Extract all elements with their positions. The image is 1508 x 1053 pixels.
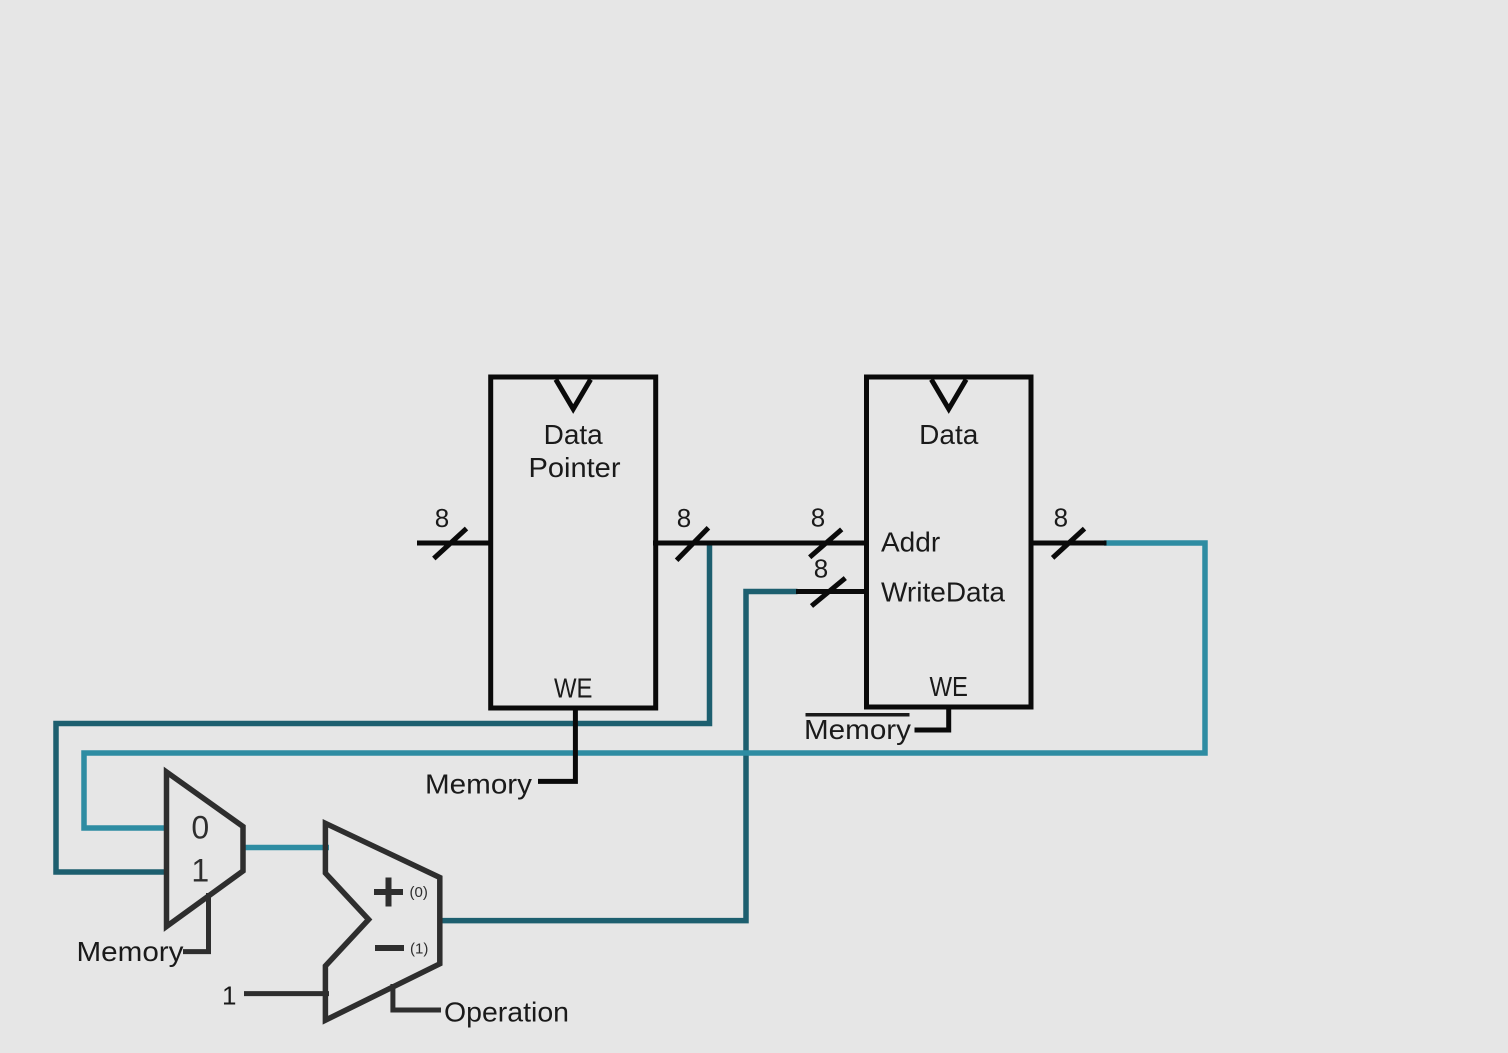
wire: Data output stub	[1029, 541, 1107, 546]
wire dark-teal feedback: DataPointer.Q down, left, down to mux input 1	[56, 546, 710, 873]
bus slash 8 (WriteData input)	[812, 578, 846, 606]
svg-text:Data: Data	[919, 419, 979, 450]
bus slash 8 (Data output)	[1053, 529, 1085, 558]
wire: input bus into Data Pointer	[417, 541, 493, 546]
svg-text:(1): (1)	[410, 940, 428, 957]
mux M1	[167, 772, 244, 927]
svg-text:0: 0	[191, 810, 209, 846]
wire: WE stub of Data down to Memory-bar label	[915, 705, 949, 730]
register U2 Data	[867, 377, 1032, 707]
svg-text:Data: Data	[544, 419, 604, 450]
wire light-teal: mux output to ALU input	[245, 845, 329, 851]
register U1 Data Pointer	[491, 377, 656, 708]
ALU op symbol plus	[374, 878, 403, 907]
ALU A1	[325, 823, 439, 1020]
svg-text:Addr: Addr	[881, 527, 940, 558]
clock input chevron U1	[556, 380, 591, 410]
svg-text:Memory: Memory	[425, 769, 532, 800]
svg-text:8: 8	[677, 503, 691, 533]
wire: constant 1 into ALU	[244, 991, 329, 996]
clock input chevron U2	[931, 380, 966, 410]
svg-text:Memory: Memory	[77, 936, 184, 967]
wire: WE stub of Data Pointer down to Memory label	[538, 706, 575, 781]
wire: WriteData port stub	[796, 589, 869, 594]
bus slash 8 (Data Pointer output)	[677, 528, 709, 561]
svg-text:WE: WE	[930, 671, 969, 702]
wire: ALU operation select stub	[393, 984, 441, 1010]
wire: Data Pointer output to Data.Addr	[653, 541, 869, 546]
svg-text:8: 8	[1054, 503, 1068, 533]
bus slash 8 (Addr input)	[810, 529, 842, 557]
svg-text:1: 1	[191, 853, 209, 889]
wire: mux select stub	[183, 893, 209, 952]
svg-text:8: 8	[435, 503, 449, 533]
svg-text:8: 8	[811, 503, 825, 533]
svg-text:(0): (0)	[410, 884, 428, 901]
svg-text:Operation: Operation	[444, 997, 569, 1028]
svg-text:WriteData: WriteData	[881, 577, 1005, 608]
svg-text:8: 8	[814, 554, 828, 584]
svg-text:Memory: Memory	[804, 714, 911, 745]
bus slash 8 (Data Pointer input)	[434, 529, 467, 559]
wire light-teal: Data.Q right, down, left, down to mux input 0	[84, 543, 1205, 828]
wire dark-teal: ALU result right then up to Data.WriteData	[440, 592, 798, 921]
svg-text:1: 1	[222, 981, 236, 1011]
svg-text:WE: WE	[554, 673, 593, 704]
ALU op symbol minus	[375, 945, 404, 951]
svg-text:Pointer: Pointer	[529, 452, 621, 483]
